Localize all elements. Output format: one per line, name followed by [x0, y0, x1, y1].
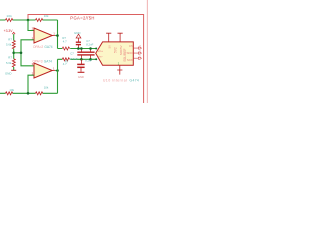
wire junction to opamp1 inverting input — [28, 20, 34, 31]
resistor R7 4.7 (node A) — [62, 47, 69, 50]
junction divider — [12, 52, 15, 55]
svg-text:5V2: 5V2 — [113, 47, 117, 53]
pin VSS bottom — [117, 65, 122, 74]
svg-text:4.7: 4.7 — [63, 39, 67, 43]
wire divider middle — [13, 49, 15, 59]
sheet frame line — [146, 0, 148, 103]
resistor R7 4.7 (node B) — [62, 58, 69, 61]
wire opamp2 inverting to bottom — [28, 75, 34, 93]
svg-text:PGA=2//5H: PGA=2//5H — [70, 16, 94, 21]
op-amp U1 OPA2 — [32, 27, 56, 50]
junction node A diff left — [80, 47, 83, 50]
wire opamp1 output to node A — [57, 20, 59, 49]
svg-text:OPA=3: OPA=3 — [32, 59, 42, 63]
svg-text:GND: GND — [78, 75, 84, 79]
capacitor 8.2nF (node B to GND) — [77, 59, 84, 72]
junction opamp1 output — [56, 34, 59, 37]
wire node A — [58, 48, 97, 50]
wire supply to divider — [13, 34, 15, 40]
wire divider node to opamp inputs — [14, 40, 34, 66]
svg-text:CS: CS — [129, 44, 133, 48]
pin dot node A — [95, 48, 97, 50]
svg-text:4.7: 4.7 — [63, 62, 67, 66]
ground divider — [11, 69, 16, 71]
svg-text:SCK: SCK — [127, 58, 133, 62]
svg-text:10k: 10k — [44, 85, 49, 89]
resistor R7 5.6k (upper divider) — [12, 41, 15, 49]
svg-text:8.2nF: 8.2nF — [86, 43, 93, 47]
svg-text:C7: C7 — [70, 51, 74, 55]
wire node B vertical — [57, 59, 59, 93]
junction node A cap1 — [77, 47, 80, 50]
svg-text:GND: GND — [5, 71, 11, 75]
junction bottom — [27, 92, 30, 95]
svg-text:R7: R7 — [8, 56, 12, 60]
ground bottom middle — [78, 71, 85, 73]
svg-text:+3.3V: +3.3V — [4, 29, 14, 33]
svg-text:R7: R7 — [8, 37, 12, 41]
junction opamp2 output — [56, 69, 59, 72]
pin SDO right — [133, 52, 141, 54]
svg-text:OPA=2: OPA=2 — [33, 45, 43, 49]
svg-text:5.6k: 5.6k — [6, 61, 12, 65]
svg-text:5.6k: 5.6k — [6, 42, 12, 46]
svg-text:10k: 10k — [9, 88, 14, 92]
junction top — [27, 19, 30, 22]
resistor R 10k (top left) — [6, 19, 13, 22]
junction node B diff right — [89, 58, 92, 61]
pin VREF top — [118, 33, 123, 42]
svg-text:vin+: vin+ — [98, 49, 104, 53]
capacitor C7 (diff left) — [77, 49, 86, 60]
pin VDDA top — [106, 33, 111, 42]
wire net (red) to right edge — [28, 15, 144, 104]
resistor R7 5.6k (lower divider) — [12, 59, 15, 67]
svg-text:G474: G474 — [130, 78, 140, 82]
pin SCK right — [133, 57, 141, 59]
svg-text:GND: GND — [74, 31, 80, 35]
svg-text:5V: 5V — [107, 45, 111, 48]
junction node B diff left — [80, 58, 83, 61]
wire bottom — [0, 92, 58, 94]
resistor R 10k (top feedback) — [36, 19, 43, 22]
capacitor (diff right) — [86, 49, 95, 60]
svg-text:GA74: GA74 — [44, 59, 52, 63]
wire opamp1 output stub — [55, 35, 57, 37]
svg-text:8.2nF: 8.2nF — [70, 57, 77, 61]
svg-text:10k: 10k — [6, 14, 12, 18]
pin dot node B — [95, 58, 97, 60]
wire node B — [58, 58, 97, 60]
svg-text:U10 internal: U10 internal — [103, 78, 127, 82]
wire divider to ground — [13, 67, 15, 70]
svg-text:8.2nF: 8.2nF — [85, 58, 92, 62]
svg-text:SDO: SDO — [126, 51, 133, 55]
op-amp U2 OPA3 — [32, 59, 56, 78]
ADC U10 — [96, 42, 134, 66]
pin CS right — [133, 47, 141, 49]
capacitor C7 8.2nF (node A to GND) — [76, 42, 81, 48]
junction node A diff right — [89, 47, 92, 50]
resistor R 10k (bottom feedback) — [36, 92, 43, 95]
resistor R 10k (bottom left) — [6, 92, 13, 95]
svg-text:10k: 10k — [44, 14, 49, 18]
wire opamp2 output stub — [55, 70, 57, 72]
wire top input — [0, 19, 58, 21]
junction divider tee — [20, 52, 23, 55]
svg-text:vin−: vin− — [98, 55, 104, 59]
svg-text:GA74: GA74 — [44, 45, 52, 49]
